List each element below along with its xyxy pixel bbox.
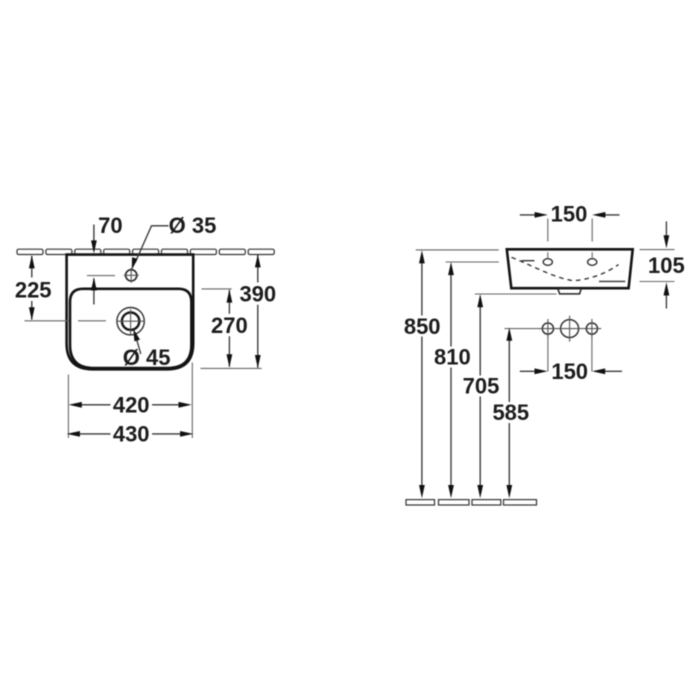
svg-text:105: 105 bbox=[648, 253, 685, 278]
svg-text:705: 705 bbox=[463, 373, 500, 398]
tap hole circle bbox=[126, 270, 137, 281]
tap hole centre extension line bbox=[87, 275, 115, 277]
extension line drain stub to 705 bbox=[475, 293, 557, 295]
drain stub under basin bbox=[558, 289, 581, 294]
svg-text:850: 850 bbox=[404, 314, 441, 339]
svg-text:420: 420 bbox=[113, 393, 150, 418]
svg-text:Ø 45: Ø 45 bbox=[123, 345, 171, 370]
inner bowl outline (plan view) bbox=[70, 289, 191, 368]
drain hole outer circle bbox=[117, 308, 144, 335]
deck tap hole left bbox=[543, 259, 552, 266]
wall mounting hole centre bbox=[561, 320, 579, 338]
svg-text:390: 390 bbox=[239, 281, 276, 306]
svg-text:270: 270 bbox=[211, 313, 248, 338]
extension line basin front edge bbox=[201, 367, 262, 369]
floor hatch band bbox=[406, 500, 537, 505]
extension verticals from outer mounting holes bbox=[548, 337, 592, 372]
svg-text:150: 150 bbox=[551, 202, 588, 227]
svg-text:225: 225 bbox=[15, 277, 52, 302]
svg-text:430: 430 bbox=[113, 422, 150, 447]
basin outer outline (plan view) bbox=[67, 255, 194, 370]
wall mounting hole right bbox=[586, 323, 597, 334]
extension line bowl top edge bbox=[202, 288, 232, 290]
svg-text:810: 810 bbox=[434, 345, 471, 370]
extension line to mounting holes row bbox=[505, 328, 540, 330]
bottom extension lines of plan view bbox=[68, 363, 192, 439]
extension line basin top to 850 bbox=[416, 249, 499, 251]
tap hole crosshair ticks bbox=[124, 268, 139, 283]
extension line deck holes to 810 bbox=[446, 261, 499, 263]
deck tap hole right bbox=[588, 259, 597, 266]
dashed bowl curve in side view bbox=[512, 257, 619, 280]
svg-text:70: 70 bbox=[98, 213, 122, 238]
svg-text:585: 585 bbox=[492, 400, 529, 425]
rim solid edge segments bbox=[522, 261, 626, 282]
wall mounting hole left bbox=[542, 323, 553, 334]
wall section hatch band (plan view) bbox=[17, 249, 274, 254]
drain crosshair ticks bbox=[117, 309, 145, 334]
drain centre extension segments bbox=[25, 320, 107, 322]
basin side profile (elevation) bbox=[507, 249, 633, 288]
extension lines for 105 bbox=[640, 250, 675, 282]
svg-text:Ø 35: Ø 35 bbox=[169, 213, 217, 238]
svg-text:150: 150 bbox=[551, 359, 588, 384]
drain hole inner circle bbox=[122, 313, 139, 330]
